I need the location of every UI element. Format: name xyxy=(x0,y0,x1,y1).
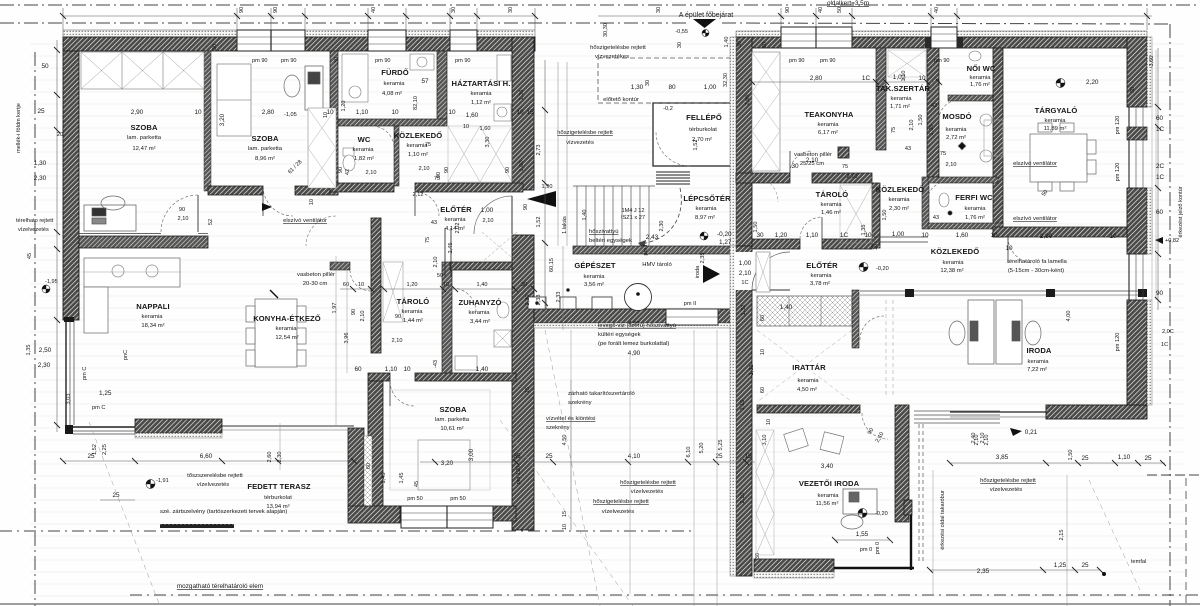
wall szoba south top seg2 xyxy=(415,373,516,381)
svg-text:kültéri egységek: kültéri egységek xyxy=(598,332,641,338)
svg-text:+0,82: +0,82 xyxy=(1165,238,1179,244)
dim labels bottom left xyxy=(82,367,283,463)
svg-text:10: 10 xyxy=(990,232,998,239)
svg-text:keramia: keramia xyxy=(818,122,840,128)
svg-text:3,44 m²: 3,44 m² xyxy=(470,319,490,325)
zuhanyzo fixtures xyxy=(455,302,511,370)
svg-text:pm I: pm I xyxy=(643,244,649,255)
room fedett terasz label xyxy=(247,482,311,510)
dims kozlekedo2 row xyxy=(791,157,888,250)
svg-text:IRODA: IRODA xyxy=(1027,346,1052,355)
main entrance arrow xyxy=(675,12,733,37)
svg-text:-0,2: -0,2 xyxy=(663,106,673,112)
svg-text:1,50: 1,50 xyxy=(882,210,888,221)
left lower vert dims xyxy=(27,132,129,404)
svg-text:pm 120: pm 120 xyxy=(1115,116,1121,135)
wall takszertar west xyxy=(876,48,886,150)
wall east middle xyxy=(1127,188,1152,254)
svg-text:1,44 m²: 1,44 m² xyxy=(403,318,423,324)
svg-text:10: 10 xyxy=(309,199,315,205)
svg-text:tőszszerelésbe rejtett: tőszszerelésbe rejtett xyxy=(187,473,243,479)
svg-text:keramia: keramia xyxy=(1028,359,1050,365)
level marker terasz xyxy=(146,478,169,489)
dim 25 lower left xyxy=(100,492,135,500)
svg-text:75: 75 xyxy=(891,127,897,133)
svg-text:-0,55: -0,55 xyxy=(675,29,688,35)
svg-text:3,03: 3,03 xyxy=(66,394,72,405)
svg-text:IRATTÁR: IRATTÁR xyxy=(792,363,826,372)
svg-text:lam. parketta: lam. parketta xyxy=(127,135,162,141)
svg-text:2C: 2C xyxy=(1156,163,1165,170)
vasbeton piller label xyxy=(794,152,832,167)
svg-text:LÉPCSŐTÉR: LÉPCSŐTÉR xyxy=(683,194,731,203)
svg-text:30: 30 xyxy=(1130,87,1136,93)
svg-text:3,40: 3,40 xyxy=(821,463,834,470)
svg-text:57: 57 xyxy=(421,78,429,85)
dim near vezetoi xyxy=(832,531,893,554)
svg-text:érkezést jelző kontúr: érkezést jelző kontúr xyxy=(1178,186,1184,237)
svg-text:1C: 1C xyxy=(1156,126,1165,133)
svg-text:2,43: 2,43 xyxy=(646,234,659,241)
room szoba3 label xyxy=(435,405,475,467)
svg-text:1,45: 1,45 xyxy=(399,473,405,484)
svg-text:20: 20 xyxy=(57,132,63,138)
right dashed x1186 xyxy=(1185,478,1187,606)
window furdo top xyxy=(368,30,406,51)
svg-text:vasbeton pillér: vasbeton pillér xyxy=(297,272,335,278)
svg-text:1,10: 1,10 xyxy=(1118,454,1131,461)
svg-text:90: 90 xyxy=(785,7,791,13)
svg-text:43: 43 xyxy=(933,215,939,221)
wall szoba south top seg1 xyxy=(368,373,390,381)
svg-text:szekrény: szekrény xyxy=(568,400,592,406)
dim labels szoba1 interior lower xyxy=(208,219,214,225)
svg-text:KONYHA-ÉTKEZŐ: KONYHA-ÉTKEZŐ xyxy=(253,314,321,323)
vizelvezetes note left xyxy=(16,218,54,233)
svg-text:1C: 1C xyxy=(741,280,748,286)
wall iroda south xyxy=(1046,405,1147,419)
svg-text:2,10: 2,10 xyxy=(419,166,430,172)
irattar cabinet row xyxy=(757,296,852,326)
svg-text:keramia: keramia xyxy=(584,274,606,280)
svg-text:oldalkert=3,5m: oldalkert=3,5m xyxy=(827,0,869,7)
window labels pm90 right xyxy=(789,58,950,64)
svg-text:1,97: 1,97 xyxy=(332,303,338,314)
svg-text:2,30: 2,30 xyxy=(38,362,51,369)
stair treads xyxy=(573,186,655,247)
svg-text:90: 90 xyxy=(523,204,529,210)
svg-text:HÁZTARTÁSI H.: HÁZTARTÁSI H. xyxy=(452,79,511,88)
dim chain middle vertical xyxy=(542,60,548,315)
svg-text:1,76 m²: 1,76 m² xyxy=(965,215,985,221)
room tarolo2 label xyxy=(816,190,849,216)
entrance threshold steps xyxy=(656,172,690,184)
wall wc kozlekedo divider xyxy=(394,126,399,186)
svg-text:10,61 m²: 10,61 m² xyxy=(440,426,463,432)
deck steps east xyxy=(914,411,1000,423)
furdo area extra dims xyxy=(338,101,450,198)
svg-text:2,80: 2,80 xyxy=(810,75,823,82)
door mosdo xyxy=(939,100,959,120)
dashed line right lower xyxy=(1147,474,1200,476)
svg-text:1,60: 1,60 xyxy=(956,232,969,239)
vezetoi glazing corner xyxy=(834,515,914,570)
dim chain top xyxy=(60,8,1152,30)
svg-text:1,40: 1,40 xyxy=(780,304,793,311)
door irattar xyxy=(860,316,884,340)
targyalo table xyxy=(1030,123,1096,191)
svg-text:GÉPÉSZET: GÉPÉSZET xyxy=(574,261,616,270)
svg-text:3,10: 3,10 xyxy=(762,435,768,446)
fa lamella note xyxy=(1007,259,1067,274)
svg-text:vízvezetékes: vízvezetékes xyxy=(595,54,629,60)
hmv tarolo label xyxy=(629,262,673,327)
right lamella lines xyxy=(1152,50,1156,300)
level marker targyalo xyxy=(1056,79,1065,88)
hoszigeteles note right xyxy=(940,435,1065,550)
svg-text:11,56 m²: 11,56 m² xyxy=(816,501,839,507)
wall targyalo south xyxy=(993,227,1147,237)
dim iroda area xyxy=(971,311,1174,461)
svg-text:SZOBA: SZOBA xyxy=(251,134,278,143)
tarolo shelf xyxy=(383,262,403,322)
svg-text:1,52: 1,52 xyxy=(92,444,98,455)
room kozlekedo1 label xyxy=(394,131,443,178)
room teakonyha label xyxy=(805,74,926,136)
wall tarolo zuhanyzo divider xyxy=(442,262,452,378)
svg-text:keramia: keramia xyxy=(891,96,913,102)
svg-text:HMV tároló: HMV tároló xyxy=(642,262,672,268)
svg-text:2,0C: 2,0C xyxy=(1162,329,1174,335)
svg-text:30: 30 xyxy=(756,232,764,239)
wall east of left block upper xyxy=(512,37,534,190)
svg-text:3,78 m²: 3,78 m² xyxy=(810,281,830,287)
bottom border line xyxy=(0,603,1200,605)
svg-text:3,20: 3,20 xyxy=(441,460,454,467)
svg-text:2,73: 2,73 xyxy=(536,145,542,156)
svg-text:2,10: 2,10 xyxy=(392,338,403,344)
svg-text:ELŐTÉR: ELŐTÉR xyxy=(440,205,472,214)
svg-text:keramia: keramia xyxy=(696,206,718,212)
svg-text:60: 60 xyxy=(343,282,349,288)
svg-text:keramia: keramia xyxy=(353,147,375,153)
svg-text:előtető kontúr: előtető kontúr xyxy=(603,97,639,103)
svg-text:2,10: 2,10 xyxy=(366,170,377,176)
wall mosdo targyalo east xyxy=(993,48,1003,237)
svg-text:2,10: 2,10 xyxy=(433,257,439,268)
svg-text:1,46 m²: 1,46 m² xyxy=(821,210,841,216)
svg-text:pm 90: pm 90 xyxy=(375,58,391,64)
svg-text:2,10: 2,10 xyxy=(806,157,819,164)
door tarolo xyxy=(350,270,371,321)
wall left exterior xyxy=(63,51,79,320)
svg-text:35: 35 xyxy=(513,453,521,460)
dim chain left xyxy=(54,40,60,432)
svg-text:KÖZLEKEDŐ: KÖZLEKEDŐ xyxy=(876,185,925,194)
eloter direction mark xyxy=(262,203,278,298)
level marker nappali xyxy=(42,279,58,293)
svg-text:térburkolat: térburkolat xyxy=(689,127,717,133)
svg-text:hőszigetelésbe rejtett: hőszigetelésbe rejtett xyxy=(620,480,676,486)
wall szoba1 bottom xyxy=(79,234,208,249)
room noiwc label xyxy=(967,64,996,88)
svg-text:1C: 1C xyxy=(1156,174,1165,181)
wall furdo bottom xyxy=(338,119,447,126)
room takszertar label xyxy=(876,84,931,152)
svg-text:vízelvezetés: vízelvezetés xyxy=(990,487,1022,493)
svg-text:0,21: 0,21 xyxy=(1025,429,1038,436)
svg-text:10: 10 xyxy=(391,109,399,116)
svg-text:10: 10 xyxy=(358,282,364,288)
dim labels top xyxy=(239,7,940,13)
svg-text:25: 25 xyxy=(1144,455,1152,462)
svg-text:43: 43 xyxy=(905,146,911,152)
corridor south glazing xyxy=(860,289,1147,297)
svg-text:hőszigetelésbe rejtett: hőszigetelésbe rejtett xyxy=(590,45,646,51)
svg-text:3,10: 3,10 xyxy=(740,400,746,411)
svg-text:3,56 m²: 3,56 m² xyxy=(584,282,604,288)
svg-text:zárható takarítószertároló: zárható takarítószertároló xyxy=(568,391,636,397)
svg-text:hőszigetelésbe rejtett: hőszigetelésbe rejtett xyxy=(980,478,1036,484)
svg-text:2,10: 2,10 xyxy=(360,311,366,322)
room nappali label xyxy=(136,302,169,329)
svg-text:2,33: 2,33 xyxy=(556,292,562,303)
svg-text:75: 75 xyxy=(842,164,848,170)
svg-text:75: 75 xyxy=(434,176,440,182)
svg-text:pm 90: pm 90 xyxy=(934,58,950,64)
szoba2 dims interior xyxy=(287,112,329,205)
svg-text:30: 30 xyxy=(508,7,514,13)
dim chain bottom right xyxy=(947,460,1166,466)
wall takszertar east xyxy=(922,48,939,229)
svg-text:2,35: 2,35 xyxy=(977,568,990,575)
svg-text:elszívó ventilátor: elszívó ventilátor xyxy=(283,218,327,224)
svg-text:90: 90 xyxy=(351,309,357,315)
svg-text:10: 10 xyxy=(1109,233,1117,240)
elszivo ventilator targyalo1 xyxy=(1013,161,1057,167)
vezetoi left cabinet band xyxy=(756,430,774,555)
svg-text:NŐI WC: NŐI WC xyxy=(967,64,996,73)
wall eloter north seg2 xyxy=(822,239,872,249)
svg-text:1,27: 1,27 xyxy=(719,239,732,246)
svg-text:keramia: keramia xyxy=(142,314,164,320)
svg-text:3,30: 3,30 xyxy=(485,137,491,148)
svg-text:5,20: 5,20 xyxy=(699,443,705,454)
svg-text:30: 30 xyxy=(645,80,651,86)
svg-text:2,10: 2,10 xyxy=(740,493,746,504)
cleaning cabinet note xyxy=(568,391,636,406)
svg-text:2,90: 2,90 xyxy=(1040,233,1053,240)
wall ferfiwc top xyxy=(928,177,998,183)
svg-text:30: 30 xyxy=(656,7,662,13)
szoba2 closet niche xyxy=(308,108,336,188)
top 30 labels in wall xyxy=(212,42,1136,93)
svg-text:FEDETT TERASZ: FEDETT TERASZ xyxy=(247,482,311,491)
svg-text:30: 30 xyxy=(212,44,218,50)
svg-text:SZOBA: SZOBA xyxy=(130,123,157,132)
svg-text:keramia: keramia xyxy=(471,91,493,97)
svg-text:6,60: 6,60 xyxy=(200,453,213,460)
pillar south east xyxy=(904,500,912,515)
wall ferfiwc bottom xyxy=(928,223,1003,229)
svg-text:1,71 m²: 1,71 m² xyxy=(890,104,910,110)
terrace notes xyxy=(160,473,287,528)
svg-text:1,50: 1,50 xyxy=(753,222,759,233)
wall teakonyha south seg2 xyxy=(812,173,872,183)
svg-text:TEAKONYHA: TEAKONYHA xyxy=(805,110,854,119)
window east pm120 upper xyxy=(1127,107,1147,188)
svg-text:60: 60 xyxy=(1156,209,1164,216)
wall tarolo kozlekedo divider right xyxy=(872,183,880,248)
svg-text:2,80: 2,80 xyxy=(262,109,275,116)
hmv tank circle xyxy=(625,284,652,311)
hoszigeteles notes mid xyxy=(593,480,676,515)
svg-text:keramia: keramia xyxy=(469,310,491,316)
svg-text:2,20: 2,20 xyxy=(525,295,531,306)
svg-text:pm 0: pm 0 xyxy=(875,542,881,554)
svg-text:10: 10 xyxy=(516,109,524,116)
svg-text:pm 120: pm 120 xyxy=(1115,163,1121,182)
svg-text:iroda: iroda xyxy=(695,265,701,278)
svg-text:TÁROLÓ: TÁROLÓ xyxy=(816,190,849,199)
svg-text:40: 40 xyxy=(818,7,824,13)
svg-text:2,50: 2,50 xyxy=(39,347,52,354)
dim labels bottom mid xyxy=(513,440,752,460)
svg-text:szé. zártszelvény (tartószerke: szé. zártszelvény (tartószerkezeti terve… xyxy=(160,509,287,515)
svg-text:90: 90 xyxy=(1156,290,1164,297)
svg-text:75: 75 xyxy=(425,142,431,148)
door apartment entrance xyxy=(474,196,512,234)
irattar dashed X xyxy=(757,330,852,402)
svg-text:FELLÉPŐ: FELLÉPŐ xyxy=(686,113,722,122)
svg-text:1C: 1C xyxy=(840,232,849,239)
extra mid vlines xyxy=(558,62,567,330)
iroda desks xyxy=(949,300,1041,364)
svg-text:3,00: 3,00 xyxy=(468,448,475,461)
svg-text:3,20: 3,20 xyxy=(219,113,226,126)
svg-text:ELŐTÉR: ELŐTÉR xyxy=(806,261,838,270)
dim line teakonyha y82 xyxy=(749,79,942,85)
svg-text:10: 10 xyxy=(443,282,449,288)
svg-text:1,30: 1,30 xyxy=(34,160,47,167)
svg-text:mellék-i földm kertje: mellék-i földm kertje xyxy=(16,103,22,153)
svg-text:60: 60 xyxy=(1156,115,1164,122)
window frame corner nappali sw xyxy=(65,425,73,434)
svg-text:vízvezetés: vízvezetés xyxy=(566,140,594,146)
wall top right block xyxy=(736,37,1147,48)
svg-text:pm 90: pm 90 xyxy=(455,58,471,64)
svg-text:2,30: 2,30 xyxy=(659,221,665,232)
iroda arrow xyxy=(695,260,752,286)
room konyha label xyxy=(253,314,321,341)
svg-text:90: 90 xyxy=(395,314,401,320)
svg-text:45: 45 xyxy=(414,481,420,487)
door eloter2 xyxy=(800,217,822,239)
corridor door frame xyxy=(433,228,451,279)
wall vezetoi south xyxy=(754,559,834,578)
dim chain bottom left xyxy=(60,458,357,464)
svg-text:WC: WC xyxy=(358,135,371,144)
elszivo note left xyxy=(283,218,327,224)
szoba3 area right vert dims xyxy=(516,295,542,485)
svg-text:térelhatároló fa lamella: térelhatároló fa lamella xyxy=(1007,259,1067,265)
svg-text:pnC: pnC xyxy=(123,350,129,360)
window labels pm90 left xyxy=(252,58,471,64)
wall west right block upper xyxy=(730,37,752,246)
eloter2 wardrobe xyxy=(756,252,770,292)
deck dashed boundary xyxy=(919,424,923,562)
right wall of gepeszet vert dims xyxy=(737,41,761,559)
svg-text:2,02: 2,02 xyxy=(455,223,461,234)
door wc xyxy=(372,126,394,148)
room iroda label xyxy=(1027,346,1052,373)
wall east lower xyxy=(1127,300,1152,405)
wall noiwc mosdo divider xyxy=(948,95,993,101)
svg-text:ZUHANYZÓ: ZUHANYZÓ xyxy=(459,298,502,307)
konyha dining table xyxy=(246,299,306,367)
noiwc toilet xyxy=(969,51,981,61)
dim labels y570 right xyxy=(977,559,1146,576)
door szoba3 xyxy=(390,314,415,406)
svg-text:MOSDÓ: MOSDÓ xyxy=(942,112,971,121)
svg-text:2,20: 2,20 xyxy=(1086,79,1099,86)
svg-text:TÁRGYALÓ: TÁRGYALÓ xyxy=(1035,106,1078,115)
window szoba bottom pm50 xyxy=(401,506,493,528)
wall szoba bottom left jamb xyxy=(383,506,401,521)
wall wc zone bottom right xyxy=(415,183,523,192)
svg-text:1,55: 1,55 xyxy=(856,531,869,538)
door fellepo dashed xyxy=(656,132,690,166)
svg-text:1,00: 1,00 xyxy=(481,207,494,214)
svg-text:30,30: 30,30 xyxy=(603,23,609,37)
room kozlekedo2 label xyxy=(876,185,925,212)
svg-text:mozgatható térelhatároló elem: mozgatható térelhatároló elem xyxy=(177,583,263,590)
wall above zuhanyzo xyxy=(450,262,512,270)
hoszigeteles note top middle xyxy=(590,45,646,60)
svg-text:1,50: 1,50 xyxy=(918,115,924,126)
long vertical ref lines xyxy=(280,330,1067,606)
vasbeton piller note left xyxy=(297,272,335,287)
svg-text:pm II: pm II xyxy=(684,301,697,307)
svg-text:hőszigetelésbe rejtett: hőszigetelésbe rejtett xyxy=(557,130,613,136)
svg-text:1,82 m²: 1,82 m² xyxy=(354,156,374,162)
svg-text:pm 0: pm 0 xyxy=(860,547,872,553)
door kozlekedo-eloter xyxy=(415,192,439,216)
dims kozlekedo3 row y239 xyxy=(864,231,1013,252)
room eloter2 label xyxy=(806,261,838,287)
svg-text:1,40: 1,40 xyxy=(724,37,730,48)
svg-text:vízelvezetés: vízelvezetés xyxy=(18,227,49,233)
door vezetoi xyxy=(862,413,888,444)
svg-text:vízelvezetés: vízelvezetés xyxy=(197,482,229,488)
room mosdo label xyxy=(942,112,971,141)
door szoba2 xyxy=(263,186,293,216)
diagonal dashed lines xyxy=(89,330,1140,606)
svg-text:hőszigetelésbe rejtett: hőszigetelésbe rejtett xyxy=(593,499,649,505)
svg-text:A épület főbejárat: A épület főbejárat xyxy=(679,12,734,19)
svg-text:elszívó ventilátor: elszívó ventilátor xyxy=(1013,161,1057,167)
svg-text:keramia: keramia xyxy=(889,197,911,203)
svg-text:2,35: 2,35 xyxy=(700,253,706,264)
szoba3 window labels xyxy=(366,463,466,502)
svg-text:80: 80 xyxy=(668,84,676,91)
svg-text:20-30 cm: 20-30 cm xyxy=(303,281,328,287)
svg-text:1,35: 1,35 xyxy=(26,345,32,356)
svg-text:temfal: temfal xyxy=(1131,559,1146,565)
wall divider furdo haztartasi xyxy=(437,51,447,119)
room tarolo label xyxy=(397,297,430,324)
svg-text:-43: -43 xyxy=(433,360,439,368)
